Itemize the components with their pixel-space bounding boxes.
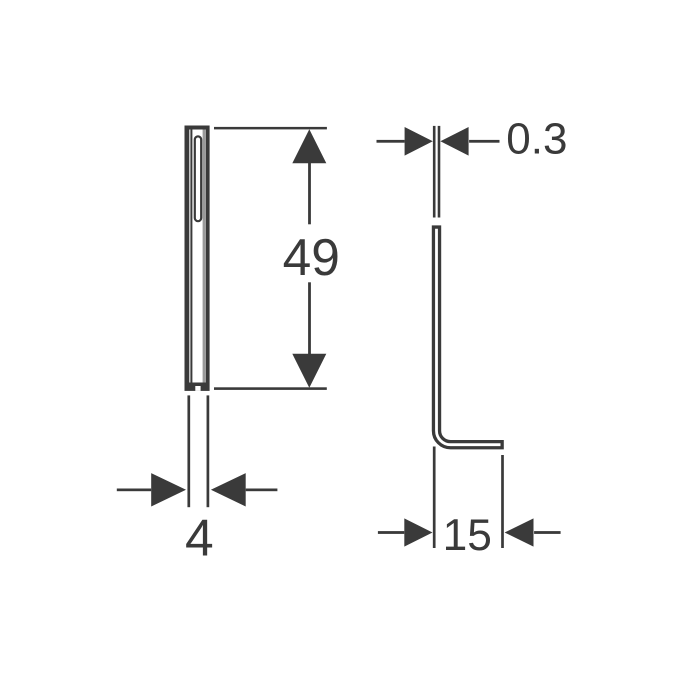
dim 4 right extension line (207, 395, 210, 507)
bent sheet profile outline (side view) (437, 225, 504, 444)
dim 0.3 left arrow (405, 127, 433, 156)
plate outer body (front view) (185, 126, 210, 391)
svg-text:15: 15 (443, 511, 492, 560)
dim 15 left extension line (433, 447, 436, 549)
dim 0.3 left extension line (433, 126, 436, 218)
dim 15 right tail line (534, 531, 561, 534)
dim 4 left arrow (151, 473, 186, 506)
plate inner shading strip (203, 130, 206, 383)
dim 0.3 right arrow (440, 127, 468, 156)
svg-text:49: 49 (283, 228, 340, 286)
dim 49 top extension line (214, 127, 327, 129)
dim 15 left arrow (404, 518, 432, 546)
dim 15 left tail line (378, 531, 404, 534)
dim 0.3 right tail line (469, 140, 499, 143)
dim 49 line lower segment (308, 282, 311, 354)
dim 0.3 left tail line (377, 140, 405, 143)
dim 49 top arrow (292, 129, 326, 163)
plate inner edge line (190, 130, 192, 383)
dim 4 right tail line (246, 489, 278, 492)
dim 4 left tail line (117, 489, 151, 492)
plate bottom notch (195, 386, 200, 391)
svg-text:0.3: 0.3 (506, 115, 567, 164)
bent sheet profile white core (437, 229, 501, 445)
dim 4 left extension line (187, 395, 190, 507)
dim 15 right extension line (501, 455, 504, 548)
dim 49 bottom arrow (292, 354, 326, 388)
plate interior (189, 130, 206, 383)
plate slot (195, 136, 201, 221)
dim 49 bottom extension line (214, 387, 327, 390)
dim 4 right arrow (211, 473, 246, 506)
dim 0.3 right extension line (438, 126, 441, 218)
dim 49 line upper segment (308, 162, 311, 224)
svg-text:4: 4 (185, 509, 214, 567)
dim 15 right arrow (505, 518, 534, 546)
